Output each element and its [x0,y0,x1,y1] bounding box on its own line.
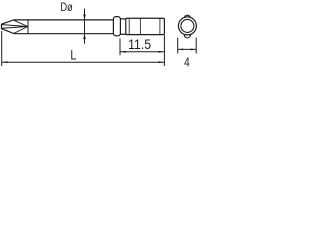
Do arrow bottom (pointing up at shaft bottom line) [83,34,86,39]
hex middle vertical line [139,19,141,35]
4 dim left arrow [178,49,184,51]
collar ring [113,17,120,36]
L dimension line [2,61,165,63]
4 dim right extension line [195,38,197,54]
4 dimension line [178,48,196,50]
hex corner bump top [184,15,190,20]
groove lower line [120,33,127,35]
hex corner bump bottom [184,33,190,38]
svg-text:11.5: 11.5 [128,36,151,52]
phillips tip flute line lower from shoulder [14,27,28,34]
Do arrow top (pointing down at shaft top line) [83,14,86,19]
11.5 dim left extension line [119,38,121,55]
inner circle (groove diameter) [181,19,194,32]
groove upper line [120,18,127,20]
phillips tip flute line lower from tip corner [2,27,28,29]
bit body: round shaft with phillips tip silhouette [2,20,114,34]
L right arrow [158,61,164,63]
outer circle (shank silhouette) [178,17,196,35]
11.5 dimension line [120,51,164,53]
arrowheads [2,14,197,63]
hex right chamfer vertical line [159,19,161,35]
end view of hex shank [178,15,196,38]
11.5 right arrow [158,51,164,53]
cone base vertical line [27,20,29,34]
svg-text:L: L [70,47,76,62]
4 dim right arrow [191,49,197,51]
hex shank body [126,18,165,34]
L left arrow [2,61,8,63]
phillips tip flute line upper from shoulder [14,20,28,26]
4 dim left extension line [177,38,179,54]
L dim left extension line [1,31,3,66]
svg-text:Dø: Dø [60,1,73,14]
hex left chamfer vertical line [128,19,130,35]
right extension line shared by 11.5 and L [163,35,165,66]
Do dimension vertical line [84,9,86,44]
svg-text:4: 4 [184,56,190,69]
11.5 left arrow [120,51,126,53]
phillips tip flute line upper from tip corner [2,25,28,27]
